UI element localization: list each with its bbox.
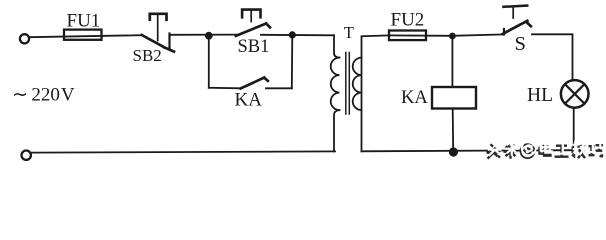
wire KA-branch right vertical [291,35,294,88]
watermark white glyph 电 [541,141,552,153]
lamp HL circle [561,80,589,108]
watermark white glyph @ [522,141,536,155]
watermark white glyph 技 [573,141,587,156]
wire KA coil branch upper [451,36,453,87]
wire lamp to bottom [573,108,575,150]
wire bottom secondary return [362,150,574,151]
transformer T primary winding [331,58,340,111]
transformer T secondary lead [362,35,390,151]
watermark white glyph 条 [505,140,519,156]
watermark white glyph 工 [556,143,570,154]
node junction C [449,33,456,40]
watermark 头条@电工技巧 [487,140,605,159]
fuse FU2 [389,31,426,41]
svg-text:SB2: SB2 [133,46,162,65]
node junction A [205,32,213,40]
wire KA coil branch lower [452,109,455,152]
relay contact KA (NO) movable bar [241,78,265,89]
relay contact KA end tick [264,78,268,81]
svg-text:T: T [344,23,354,42]
pushbutton SB1 stem [250,11,252,22]
lamp HL cross [565,84,584,103]
node junction B [289,31,296,38]
switch S left contact tick [503,29,505,34]
watermark glyph 条 [504,143,518,159]
wire top-left to SB2 [30,35,142,37]
pushbutton SB1 movable contact [236,24,266,36]
pushbutton SB2 (NC) cap [150,14,167,20]
svg-text:FU2: FU2 [391,10,425,31]
pushbutton SB1 end tick [266,24,270,28]
wire KA-branch left vertical [208,36,210,88]
watermark glyph 电 [540,144,551,156]
relay coil KA [432,87,476,109]
wire bottom primary return [31,151,335,152]
transformer T primary lead down [334,35,340,57]
svg-text:S: S [515,33,526,55]
pushbutton SB2 right contact bar [168,34,170,49]
svg-text:KA: KA [235,90,263,111]
switch S end tick [527,22,531,26]
svg-text:KA: KA [401,88,428,108]
terminal bottom-left [22,151,31,160]
wire through FU2 [389,34,449,36]
switch S actuator bar [504,6,528,7]
pushbutton SB2 movable contact [142,35,163,46]
watermark glyph 工 [555,146,569,157]
watermark white glyph 巧 [590,142,605,153]
svg-text:∼220V: ∼220V [12,85,75,106]
transformer T core [345,53,347,115]
switch S movable contact [503,21,528,34]
wire SB2 to SB1 [170,34,237,36]
watermark glyph 头 [487,144,501,159]
node junction D [449,147,458,156]
wire FU2 node to switch S [452,34,504,35]
wire KA-branch bottom-right [266,87,292,89]
svg-text:HL: HL [527,85,553,106]
transformer T primary lead to bottom wire [334,110,340,151]
watermark glyph 技 [572,144,586,159]
svg-text:SB1: SB1 [238,37,270,57]
wire SB1 to transformer corner [261,34,334,37]
switch S actuator stem [512,7,514,18]
terminal top-left [20,34,29,43]
pushbutton SB1 (NO) cap [242,10,260,18]
pushbutton SB2 end tick [164,47,174,51]
svg-text:FU1: FU1 [67,10,101,31]
watermark glyph 巧 [589,145,604,156]
watermark glyph @ [521,144,535,158]
pushbutton SB2 stem [157,15,159,41]
fuse FU1 [64,30,102,40]
wire S to lamp corner [532,34,573,79]
transformer T secondary winding [353,58,362,111]
wire KA-branch bottom-left [209,87,241,90]
watermark white glyph 头 [488,141,502,156]
